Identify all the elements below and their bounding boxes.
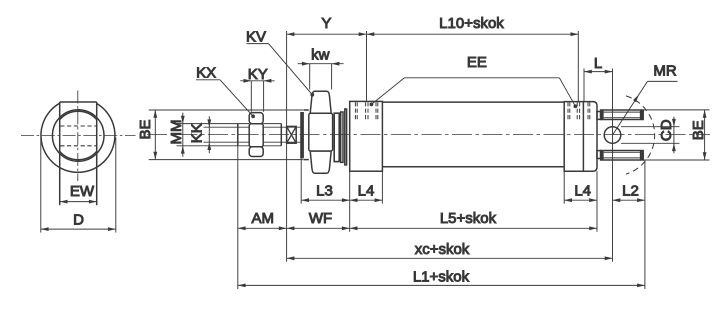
svg-text:xc+skok: xc+skok bbox=[415, 241, 470, 258]
label KV leader bbox=[246, 29, 314, 97]
svg-text:CD: CD bbox=[658, 119, 675, 141]
extension line left port bbox=[366, 31, 368, 101]
label EE leader bbox=[370, 54, 578, 108]
extension line rear port bbox=[577, 31, 579, 102]
svg-text:Y: Y bbox=[321, 15, 331, 32]
dimension CD bbox=[658, 117, 676, 154]
main centreline bbox=[147, 134, 710, 136]
end view hidden flat line lower bbox=[60, 145, 96, 147]
svg-text:KK: KK bbox=[189, 123, 206, 143]
rod flats square bbox=[287, 126, 297, 143]
rear head block bbox=[564, 102, 597, 172]
dimension L2 bbox=[613, 182, 645, 202]
swing radius MR dashed arc bbox=[626, 96, 655, 174]
svg-text:WF: WF bbox=[309, 210, 332, 227]
dimension BE left bbox=[137, 110, 157, 160]
svg-text:MR: MR bbox=[653, 62, 676, 79]
dimension KY bbox=[240, 66, 274, 112]
svg-text:L2: L2 bbox=[622, 182, 639, 199]
front head bbox=[350, 101, 383, 171]
eye hole CD bbox=[604, 127, 621, 144]
svg-text:L3: L3 bbox=[316, 182, 333, 199]
extension lines BE left bbox=[149, 110, 303, 160]
svg-text:L4: L4 bbox=[358, 182, 375, 199]
svg-text:L: L bbox=[594, 55, 602, 72]
end view outer circle D bbox=[41, 103, 115, 172]
end view inner circle second arc bottom bbox=[60, 152, 97, 160]
extension line rod face tall bbox=[237, 124, 239, 289]
extension line rear head left bbox=[563, 171, 565, 203]
extension line WF plane tall bbox=[286, 31, 288, 262]
svg-text:KV: KV bbox=[246, 29, 266, 46]
end view hidden flat line upper bbox=[60, 125, 96, 127]
dimension Y bbox=[287, 15, 367, 36]
extension line rear face tall bbox=[596, 171, 598, 232]
dimension L4 rear bbox=[564, 182, 597, 202]
rod thread lines KK bbox=[204, 127, 302, 142]
extension line eye centre tall bbox=[612, 68, 614, 261]
end view horizontal centreline bbox=[21, 135, 136, 137]
dimension L4 front bbox=[350, 182, 383, 202]
dimension KK bbox=[189, 116, 212, 153]
dimension L5+skok bbox=[350, 210, 597, 230]
rear head face line bbox=[582, 102, 584, 172]
end view inner circle second arc top bbox=[60, 111, 97, 119]
svg-text:D: D bbox=[73, 211, 84, 228]
rod end face bbox=[237, 124, 239, 146]
extension lines BE right bbox=[644, 110, 710, 160]
svg-text:kw: kw bbox=[311, 47, 330, 64]
svg-text:L4: L4 bbox=[574, 182, 591, 199]
extension line head left face bbox=[349, 171, 351, 232]
svg-text:L5+skok: L5+skok bbox=[440, 210, 497, 227]
front port hidden lines bbox=[355, 102, 377, 120]
extension line eye end tall bbox=[644, 160, 646, 289]
dimension L3 bbox=[301, 182, 350, 202]
dimension MM bbox=[168, 113, 185, 157]
svg-text:KY: KY bbox=[248, 66, 268, 83]
extension lines CD bbox=[621, 127, 680, 144]
dimension L10+skok bbox=[367, 15, 579, 36]
dimension xc+skok bbox=[287, 241, 613, 260]
thread end face bbox=[280, 124, 282, 146]
clevis step lower bbox=[597, 151, 601, 159]
rod nut bbox=[249, 113, 263, 157]
svg-text:AM: AM bbox=[252, 210, 275, 227]
svg-text:L10+skok: L10+skok bbox=[439, 15, 504, 32]
end view vertical centreline bbox=[77, 91, 79, 182]
clevis step upper bbox=[597, 112, 601, 120]
svg-text:BE: BE bbox=[137, 119, 154, 139]
dimension WF bbox=[287, 210, 350, 230]
rod outer lines MM bbox=[177, 124, 282, 146]
svg-text:L1+skok: L1+skok bbox=[413, 269, 470, 286]
gland bush flange bbox=[301, 110, 309, 160]
end view inner circle bbox=[52, 110, 104, 162]
svg-text:EW: EW bbox=[70, 183, 95, 200]
clevis plate upper bbox=[601, 110, 644, 120]
svg-text:BE: BE bbox=[690, 120, 707, 140]
dimension AM bbox=[238, 210, 287, 230]
clevis plate lower bbox=[601, 151, 644, 161]
label MR leader bbox=[613, 62, 678, 135]
gland ring 3 bbox=[345, 109, 347, 165]
gland ring 2 bbox=[341, 112, 343, 162]
dimension EW bbox=[60, 183, 97, 204]
gland ring 1 bbox=[334, 113, 339, 161]
dimension D bbox=[41, 138, 116, 233]
svg-text:KX: KX bbox=[196, 65, 216, 82]
dimension BE right bbox=[690, 110, 707, 160]
extension line head right face bbox=[381, 171, 383, 203]
dimension L bbox=[584, 55, 613, 102]
extension line L3 left bbox=[300, 158, 302, 204]
end view flats slab EW bbox=[60, 102, 97, 205]
svg-text:EE: EE bbox=[467, 54, 487, 71]
dimension L1+skok bbox=[238, 269, 645, 288]
mounting nut KV bbox=[309, 91, 333, 173]
rear port hidden lines bbox=[568, 102, 590, 120]
label KX leader bbox=[196, 65, 255, 119]
cylinder tube bbox=[382, 102, 564, 167]
dimension kw bbox=[298, 47, 344, 90]
